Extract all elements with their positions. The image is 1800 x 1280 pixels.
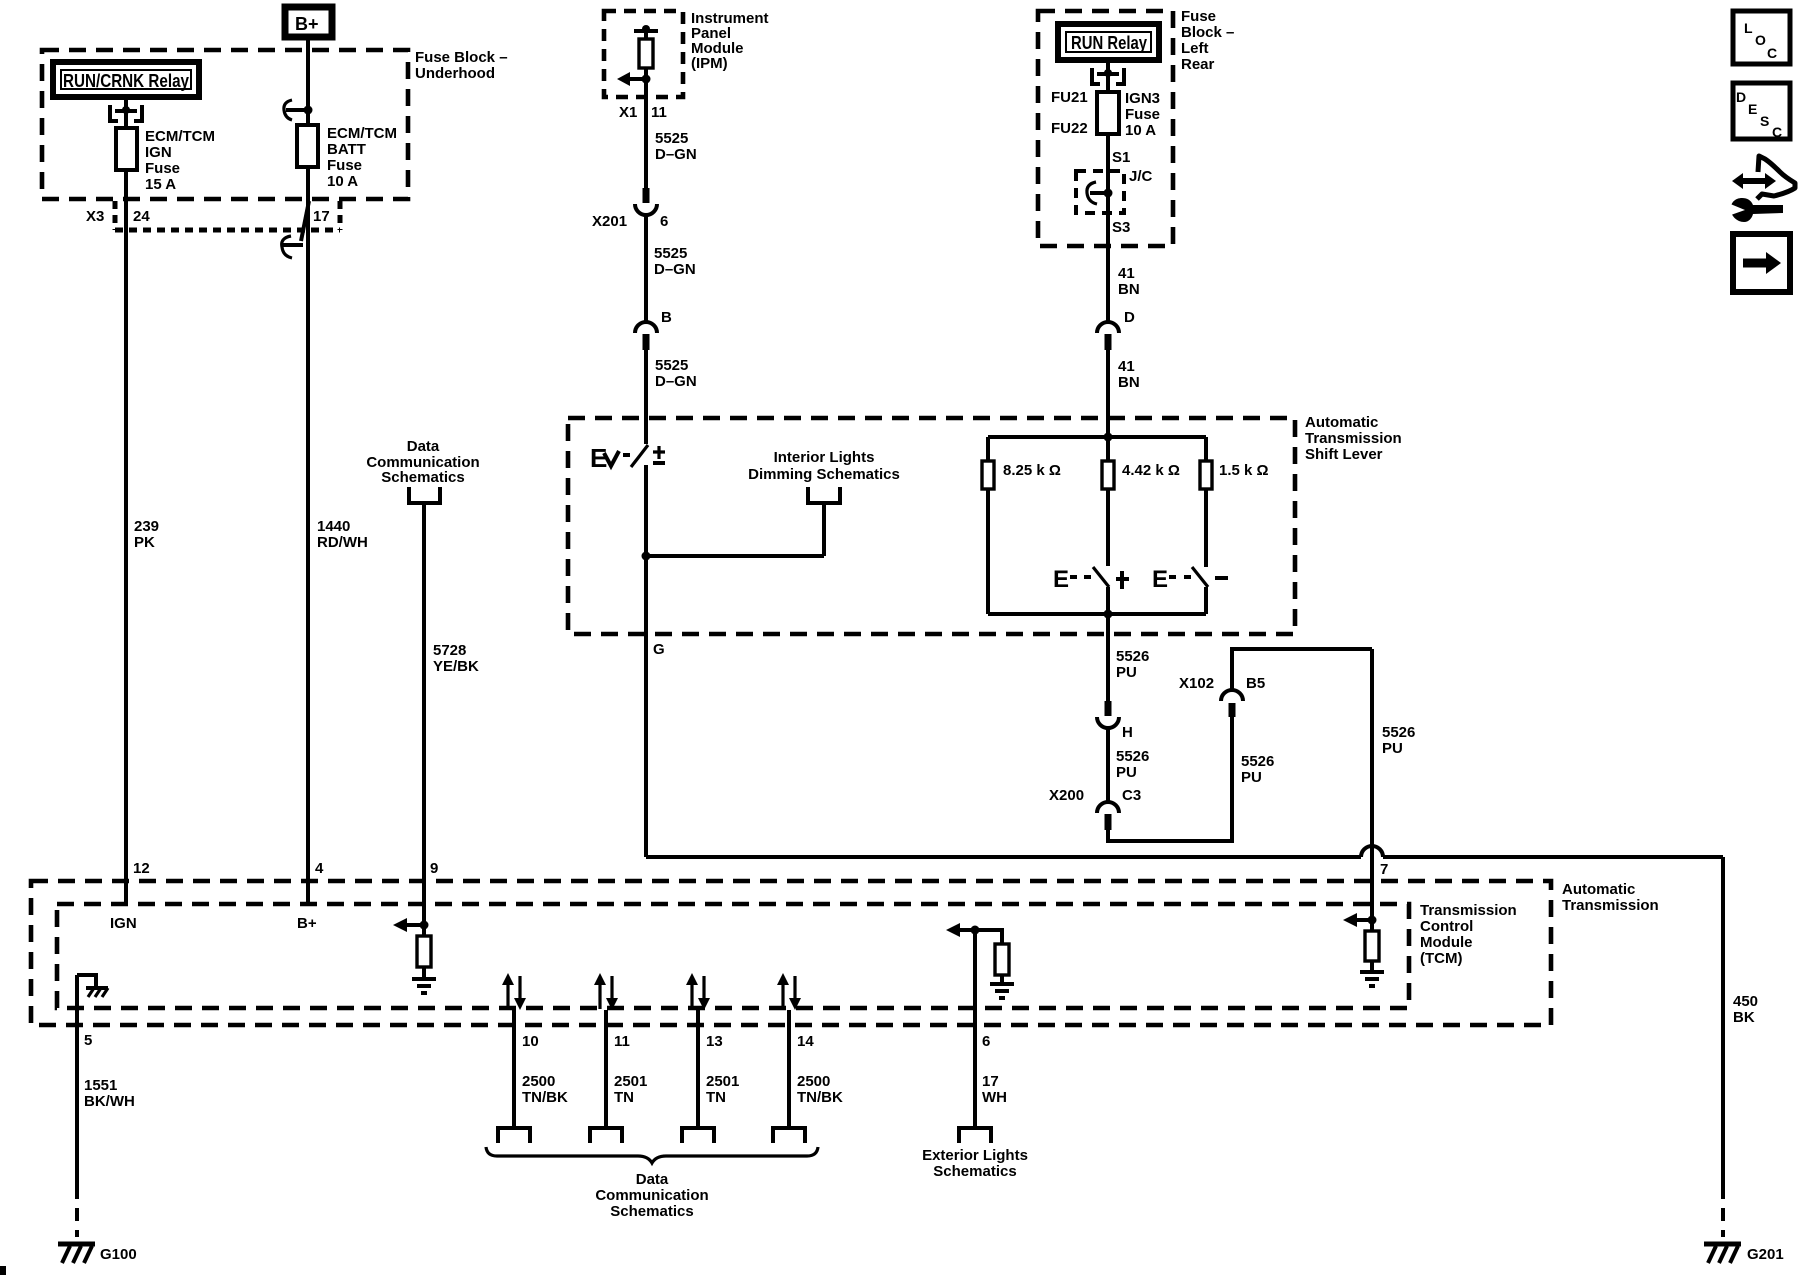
svg-text:TN/BK: TN/BK	[797, 1089, 843, 1106]
svg-text:WH: WH	[982, 1089, 1007, 1106]
svg-text:17: 17	[982, 1073, 999, 1090]
svg-text:IGN: IGN	[110, 915, 137, 932]
in-line connector X102 pin B5	[1179, 675, 1265, 717]
Interior Lights Dimming Schematics label	[748, 449, 900, 483]
wire 17 WH pin 6	[975, 930, 1007, 1126]
svg-text:D–GN: D–GN	[654, 261, 696, 278]
pin 11 off-page terminal	[590, 1128, 622, 1143]
wire fuse to J/C	[1106, 134, 1110, 322]
IPM internal fuse element	[639, 31, 653, 68]
svg-text:Transmission: Transmission	[1562, 897, 1659, 914]
ground G201	[1704, 1244, 1784, 1263]
svg-text:B5: B5	[1246, 675, 1265, 692]
svg-text:Shift Lever: Shift Lever	[1305, 446, 1383, 463]
in-line connector B	[635, 309, 672, 350]
relay RUN Relay	[1058, 24, 1159, 60]
svg-text:S1: S1	[1112, 149, 1130, 166]
svg-text:Data: Data	[407, 438, 440, 455]
resistor network bottom rail	[988, 610, 1206, 619]
svg-text:D: D	[1736, 89, 1746, 105]
wire G down and across to 450 BK	[646, 634, 1723, 857]
node S3 label	[1112, 219, 1130, 236]
svg-text:BATT: BATT	[327, 141, 366, 158]
svg-text:5526: 5526	[1241, 753, 1274, 770]
node G label	[653, 641, 665, 658]
svg-text:5: 5	[84, 1032, 92, 1049]
pin 10 off-page terminal	[498, 1128, 530, 1143]
svg-text:41: 41	[1118, 265, 1135, 282]
wire label 239 PK	[134, 518, 159, 551]
svg-text:ECM/TCM: ECM/TCM	[327, 125, 397, 142]
svg-text:E: E	[1053, 566, 1069, 593]
svg-text:S3: S3	[1112, 219, 1130, 236]
relay RUN/CRNK Relay	[53, 62, 199, 97]
svg-text:Underhood: Underhood	[415, 65, 495, 82]
svg-text:17: 17	[313, 208, 330, 225]
svg-text:Fuse: Fuse	[1125, 106, 1160, 123]
svg-text:H: H	[1122, 724, 1133, 741]
wire label 5526 PU at X102 branch	[1241, 753, 1274, 786]
svg-text:Module: Module	[1420, 934, 1473, 951]
svg-text:4: 4	[315, 860, 324, 877]
svg-text:IGN3: IGN3	[1125, 90, 1160, 107]
in-line connector D	[1097, 309, 1135, 350]
svg-text:X3: X3	[86, 208, 104, 225]
connector label X3	[86, 208, 104, 225]
svg-text:10 A: 10 A	[327, 173, 358, 190]
TCM pin 9 internal arrow junction	[393, 918, 429, 932]
svg-text:450: 450	[1733, 993, 1758, 1010]
svg-text:11: 11	[614, 1033, 630, 1050]
svg-text:10: 10	[522, 1033, 539, 1050]
icon double arrow with wrench	[1728, 156, 1795, 222]
svg-text:TN: TN	[614, 1089, 634, 1106]
ground G100	[58, 1244, 137, 1263]
fuse clip bracket FU21/FU22	[1090, 68, 1126, 84]
TCM pin 6 internal arrow junction	[946, 923, 980, 937]
off-page bracket to Interior Lights Dimming	[808, 487, 840, 503]
pin 12 label	[133, 860, 150, 877]
svg-text:5526: 5526	[1116, 748, 1149, 765]
svg-text:8.25 k Ω: 8.25 k Ω	[1003, 462, 1061, 479]
svg-text:O: O	[1755, 32, 1766, 48]
svg-text:(TCM): (TCM)	[1420, 950, 1462, 967]
Fuse Block - Underhood dashed box	[42, 50, 408, 199]
svg-text:C3: C3	[1122, 787, 1141, 804]
svg-text:Data: Data	[636, 1171, 669, 1188]
icon LOC box	[1733, 11, 1790, 64]
pin 24 label	[133, 208, 150, 225]
svg-text:E: E	[1748, 101, 1757, 117]
svg-text:RUN/CRNK Relay: RUN/CRNK Relay	[63, 71, 189, 91]
svg-text:RD/WH: RD/WH	[317, 534, 368, 551]
svg-text:Block –: Block –	[1181, 24, 1234, 41]
TCM data pin 11 arrows	[594, 973, 618, 1010]
svg-text:14: 14	[797, 1033, 814, 1050]
svg-text:X200: X200	[1049, 787, 1084, 804]
tap-up switch +	[1053, 489, 1129, 593]
svg-text:5728: 5728	[433, 642, 466, 659]
pin 13 off-page terminal	[682, 1128, 714, 1143]
IPM internal feed bar	[634, 25, 658, 33]
svg-text:2501: 2501	[614, 1073, 647, 1090]
Fuse Block - Left Rear dashed box	[1038, 11, 1173, 246]
wire 450 BK	[1723, 857, 1758, 1237]
fuse IGN3 10A	[1097, 62, 1119, 134]
TCM IGN input label	[110, 915, 137, 932]
wire 2501 TN pin 11	[606, 1010, 647, 1126]
svg-text:X201: X201	[592, 213, 627, 230]
fuse ECM/TCM BATT 10A	[297, 125, 318, 167]
wire label 5526 PU below shift lever	[1116, 648, 1149, 681]
svg-text:Fuse: Fuse	[1181, 8, 1216, 25]
pin 9 label	[430, 860, 438, 877]
svg-text:L: L	[1744, 20, 1753, 36]
svg-text:5526: 5526	[1116, 648, 1149, 665]
svg-text:BK/WH: BK/WH	[84, 1093, 135, 1110]
svg-text:BN: BN	[1118, 374, 1140, 391]
TCM B+ input label	[297, 915, 317, 932]
svg-text:RUN Relay: RUN Relay	[1071, 33, 1147, 53]
svg-text:Communication: Communication	[595, 1187, 708, 1204]
wire 5525 D-GN segment 3	[646, 350, 697, 444]
icon DESC box	[1733, 83, 1790, 140]
wire 41 BN lower	[1108, 350, 1140, 461]
svg-text:B+: B+	[295, 14, 319, 34]
svg-text:9: 9	[430, 860, 438, 877]
svg-text:D–GN: D–GN	[655, 146, 697, 163]
wire 5526 PU to TCM pin 7	[1232, 649, 1415, 920]
svg-text:Exterior Lights: Exterior Lights	[922, 1147, 1028, 1164]
svg-text:2501: 2501	[706, 1073, 739, 1090]
off-page bracket to Data Communication top	[409, 487, 440, 503]
Automatic Transmission label	[1562, 881, 1659, 914]
svg-text:(IPM): (IPM)	[691, 55, 728, 72]
resistor network top rail	[988, 433, 1206, 442]
svg-text:5525: 5525	[654, 245, 687, 262]
wire 5728 YE/BK	[424, 503, 479, 925]
svg-text:FU21: FU21	[1051, 89, 1088, 106]
svg-text:PK: PK	[134, 534, 155, 551]
svg-text:Fuse Block –: Fuse Block –	[415, 49, 508, 66]
wire 2500 TN/BK pin 14	[789, 1010, 843, 1126]
wire 2501 TN pin 13	[698, 1010, 739, 1126]
svg-text:1.5 k Ω: 1.5 k Ω	[1219, 462, 1269, 479]
svg-text:X1: X1	[619, 104, 637, 121]
Data Communication Schematics bottom label	[595, 1171, 708, 1220]
svg-text:PU: PU	[1241, 769, 1262, 786]
TCM pin 7 internal resistor	[1365, 920, 1379, 971]
svg-text:4.42 k Ω: 4.42 k Ω	[1122, 462, 1180, 479]
svg-text:10 A: 10 A	[1125, 122, 1156, 139]
wire 5525 D-GN segment 1	[646, 97, 697, 188]
connector X3 strip	[115, 201, 340, 230]
TCM pin 6 internal resistor branch	[975, 930, 1009, 983]
stray mark bottom left	[0, 1266, 6, 1275]
svg-text:C: C	[1772, 124, 1782, 140]
Transmission Control Module (TCM) dashed box	[57, 904, 1409, 1008]
svg-text:6: 6	[660, 213, 668, 230]
svg-text:S: S	[1760, 113, 1769, 129]
wire jog X200 to X102	[1108, 717, 1232, 841]
svg-text:Schematics: Schematics	[933, 1163, 1016, 1180]
brace under data pins	[486, 1147, 818, 1163]
svg-text:12: 12	[133, 860, 150, 877]
in-line connector H	[1097, 701, 1133, 741]
resistor 1.5 k ohm	[1200, 437, 1269, 567]
svg-text:PU: PU	[1116, 664, 1137, 681]
svg-text:5525: 5525	[655, 130, 688, 147]
svg-text:TN: TN	[706, 1089, 726, 1106]
TCM pin 6 internal ground	[990, 984, 1014, 998]
splice clip at ECM/TCM BATT fuse feed	[284, 100, 313, 120]
TCM data pin 14 arrows	[777, 973, 801, 1010]
Automatic Transmission Shift Lever label	[1305, 414, 1402, 463]
svg-text:G: G	[653, 641, 665, 658]
TCM pin 9 internal resistor	[417, 925, 431, 978]
resistor 4.42 k ohm	[1102, 461, 1180, 489]
svg-text:B+: B+	[297, 915, 317, 932]
svg-text:BK: BK	[1733, 1009, 1755, 1026]
IPM label	[691, 10, 769, 72]
pin 6 off-page terminal	[959, 1128, 991, 1143]
svg-text:7: 7	[1380, 861, 1388, 878]
in-line connector X201 pin 6	[592, 188, 668, 230]
TCM data pin 13 arrows	[686, 973, 710, 1010]
svg-text:FU22: FU22	[1051, 120, 1088, 137]
wire hop over TCM pin 7 lead	[1361, 846, 1383, 857]
svg-text:15 A: 15 A	[145, 176, 176, 193]
svg-text:ECM/TCM: ECM/TCM	[145, 128, 215, 145]
svg-text:Schematics: Schematics	[610, 1203, 693, 1220]
svg-text:IGN: IGN	[145, 144, 172, 161]
junction to interior lights dimming	[642, 503, 825, 561]
svg-text:Fuse: Fuse	[327, 157, 362, 174]
wire 5526 PU segment 2	[1108, 728, 1149, 802]
pin 4 label	[315, 860, 324, 877]
junction connector J/C dashed box	[1076, 168, 1153, 213]
svg-text:1440: 1440	[317, 518, 350, 535]
IPM internal output arrow	[617, 68, 651, 97]
svg-text:5526: 5526	[1382, 724, 1415, 741]
in-line connector X200 pin C3	[1049, 787, 1141, 830]
fuse terminal labels FU21 FU22	[1051, 89, 1088, 137]
Fuse Block - Left Rear label	[1181, 8, 1234, 73]
svg-text:Control: Control	[1420, 918, 1473, 935]
Fuse Block - Underhood label	[415, 49, 508, 82]
wire from dimmer switch to junction	[644, 465, 648, 634]
svg-text:239: 239	[134, 518, 159, 535]
svg-text:5525: 5525	[655, 357, 688, 374]
svg-text:Automatic: Automatic	[1305, 414, 1378, 431]
svg-text:6: 6	[982, 1033, 990, 1050]
splice clip inside J/C	[1087, 182, 1113, 204]
svg-text:Left: Left	[1181, 40, 1209, 57]
Automatic Transmission Shift Lever dashed box	[568, 418, 1295, 634]
fuse IGN3 label	[1125, 90, 1160, 139]
fuse clip bracket F1	[108, 105, 144, 121]
Automatic Transmission dashed box	[31, 881, 1551, 1025]
svg-text:Schematics: Schematics	[381, 469, 464, 486]
Exterior Lights Schematics label	[922, 1147, 1028, 1180]
svg-text:G100: G100	[100, 1246, 137, 1263]
svg-text:PU: PU	[1382, 740, 1403, 757]
pin 7 label	[1380, 861, 1388, 878]
svg-text:TN/BK: TN/BK	[522, 1089, 568, 1106]
fuse ECM/TCM BATT label	[327, 125, 397, 190]
wire label 41 BN upper	[1118, 265, 1140, 298]
Instrument Panel Module (IPM) dashed box	[604, 11, 683, 97]
wire 239 PK from fuse to TCM pin 12	[124, 170, 128, 904]
svg-text:2500: 2500	[797, 1073, 830, 1090]
resistor 8.25 k ohm	[982, 437, 1061, 614]
svg-text:C: C	[1767, 45, 1777, 61]
svg-text:D–GN: D–GN	[655, 373, 697, 390]
TCM pin 9 internal ground	[412, 979, 436, 993]
svg-text:X102: X102	[1179, 675, 1214, 692]
TCM pin 7 internal arrow junction	[1343, 913, 1377, 927]
tap-down switch -	[1152, 566, 1228, 614]
fuse ECM/TCM IGN label	[145, 128, 215, 193]
svg-text:YE/BK: YE/BK	[433, 658, 479, 675]
svg-text:Interior Lights: Interior Lights	[774, 449, 875, 466]
TCM pin 7 internal ground	[1360, 972, 1384, 986]
pin 17 label	[313, 208, 330, 225]
svg-text:BN: BN	[1118, 281, 1140, 298]
svg-text:E: E	[1152, 566, 1168, 593]
Data Communication Schematics top label	[366, 438, 479, 486]
connector X1 pin 11 labels	[619, 104, 667, 121]
wire label 1440 RD/WH	[317, 518, 368, 551]
svg-text:D: D	[1124, 309, 1135, 326]
svg-text:11: 11	[651, 104, 667, 121]
svg-text:Fuse: Fuse	[145, 160, 180, 177]
svg-text:2500: 2500	[522, 1073, 555, 1090]
wire 5525 D-GN segment 2	[646, 215, 696, 322]
svg-text:1551: 1551	[84, 1077, 117, 1094]
svg-text:41: 41	[1118, 358, 1135, 375]
TCM label	[1420, 902, 1517, 967]
wire 1551 BK/WH	[77, 975, 135, 1237]
TCM pin 5 internal chassis ground	[77, 973, 108, 997]
wire 2500 TN/BK pin 10	[514, 1010, 568, 1126]
svg-text:Transmission: Transmission	[1305, 430, 1402, 447]
dimmer switch symbol in shift lever assembly	[590, 443, 665, 473]
icon forward arrow box	[1733, 234, 1790, 292]
svg-text:J/C: J/C	[1129, 168, 1153, 185]
svg-text:Automatic: Automatic	[1562, 881, 1635, 898]
svg-text:Rear: Rear	[1181, 56, 1215, 73]
svg-text:Dimming Schematics: Dimming Schematics	[748, 466, 900, 483]
node S1 label	[1112, 149, 1130, 166]
svg-text:24: 24	[133, 208, 150, 225]
svg-text:Transmission: Transmission	[1420, 902, 1517, 919]
twisted lead symbol below pin 17	[282, 201, 309, 258]
TCM data pin 10 arrows	[502, 973, 526, 1010]
wire B+ feed down from B+ box	[306, 37, 310, 904]
wire shift lever output	[1106, 587, 1110, 702]
B+ power feed box	[285, 7, 332, 37]
fuse ECM/TCM IGN 15A	[116, 100, 137, 170]
svg-text:13: 13	[706, 1033, 723, 1050]
svg-text:G201: G201	[1747, 1246, 1784, 1263]
pin 14 off-page terminal	[773, 1128, 805, 1143]
svg-text:B: B	[661, 309, 672, 326]
svg-text:PU: PU	[1116, 764, 1137, 781]
